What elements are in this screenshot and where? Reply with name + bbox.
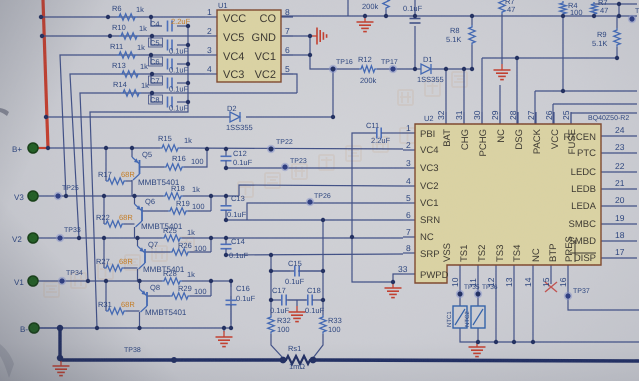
capacitor C14 0.1uF xyxy=(221,237,249,260)
wire U2 right pin stubs 24..17 xyxy=(601,135,637,137)
test point TP17 xyxy=(381,59,398,73)
wire NTC common bus xyxy=(460,328,639,342)
wire pin25 row xyxy=(571,112,637,114)
transistor Q6 MMBT5401 xyxy=(135,196,183,231)
wire R17 to collector xyxy=(126,180,132,182)
wire R27 feed xyxy=(103,238,105,268)
wire C15 row xyxy=(271,270,290,272)
resistor R18 1k xyxy=(163,184,200,199)
wire V2 row to pin7 xyxy=(33,237,162,239)
capacitor C17 0.1uF xyxy=(270,286,297,315)
wire row R16 to B+ row xyxy=(140,166,165,168)
wire R19 row end vertical xyxy=(210,196,212,211)
wire SRN row (pin6) xyxy=(226,219,403,221)
wire R29 row xyxy=(147,295,170,297)
wire D2 cathode to TP16 xyxy=(246,69,333,117)
wire ladder row 4 (VC3) + drop to V2 xyxy=(70,74,205,238)
test point TP26 xyxy=(306,193,331,206)
resistor R9 5.1K xyxy=(592,28,620,48)
resistor R29 100 xyxy=(170,284,207,299)
ground B- row xyxy=(216,331,233,347)
wire cap bus to B- drop xyxy=(90,26,188,328)
wire ladder row 3 (VC4) + drop to V3 xyxy=(60,55,205,196)
wire ladder row 1 (VCC) xyxy=(41,16,205,18)
wire U1 pin7 GND xyxy=(281,35,312,37)
wire R26 row xyxy=(145,251,170,253)
wire pin14 NC drop xyxy=(532,265,534,342)
resistor R33 100 xyxy=(320,315,342,334)
ground R7 branch xyxy=(494,64,511,80)
wire U1 pin8 CO to top rail xyxy=(281,15,637,17)
resistor R15 1k xyxy=(158,134,192,151)
resistor R16 100 xyxy=(164,154,204,170)
wire 200k resistor to rail xyxy=(385,10,387,16)
wire pin11 TS2 to NTC2 xyxy=(477,265,479,306)
resistor R31 68R xyxy=(98,300,135,314)
wire R29 row end vertical xyxy=(210,281,212,296)
resistor R25 1k xyxy=(162,226,195,241)
wire R31 to collector xyxy=(126,310,140,312)
wire R33 to rail xyxy=(313,334,323,358)
wire top rail stub up xyxy=(347,0,349,16)
wire pin29 drop xyxy=(499,85,501,124)
transistor Q5 MMBT5401 xyxy=(132,149,180,187)
wire jog to pin5 (VC1/TP26) xyxy=(247,203,403,220)
wire GND branch down to TP16 xyxy=(310,36,333,69)
capacitor C9 0.1uF xyxy=(403,4,423,23)
capacitor C7 0.1uF xyxy=(149,76,189,94)
wire 0.1uF cap drop xyxy=(414,0,416,18)
resistor R17 68R xyxy=(98,170,135,184)
test point TP33 xyxy=(56,227,81,242)
wire R9 top stub xyxy=(616,16,618,28)
wire pin33 PWPD to ground xyxy=(393,274,403,282)
wire SRP row (pin8) xyxy=(226,254,403,255)
wire C8 jog xyxy=(151,93,162,102)
IC U1 xyxy=(207,1,290,82)
resistor R26 100 xyxy=(170,241,207,255)
terminal V3 xyxy=(14,191,38,202)
wire R7b top net to edge xyxy=(594,3,637,5)
wire Q7 collector xyxy=(137,269,139,281)
resistor R32 100 xyxy=(268,315,291,334)
wire D1 cathode row xyxy=(430,68,472,70)
test point TP23 xyxy=(281,158,307,171)
wire C7 jog xyxy=(151,74,162,83)
wire C17/C18 mid ground stem xyxy=(296,300,298,306)
wire U2 top pin stubs xyxy=(445,112,447,124)
junction dot B- elbow xyxy=(57,325,63,331)
capacitor C6 0.1uF xyxy=(149,57,189,75)
wire pin27 row xyxy=(535,90,637,92)
terminal B+ xyxy=(12,143,38,154)
wire U1 pin stubs xyxy=(205,16,217,18)
transistor Q8 MMBT5401 xyxy=(140,281,187,317)
wire C5 jog xyxy=(151,36,162,45)
wire R22 feed xyxy=(103,196,105,224)
wire U2 left pin stubs xyxy=(403,132,415,134)
capacitor C4 2.2uF xyxy=(150,17,191,32)
resistor R4 100 xyxy=(560,1,583,17)
wire SRP vertical x=271 xyxy=(270,255,272,315)
wire B+ terminal red stub xyxy=(33,147,48,149)
wire SRN vertical x=323 xyxy=(322,220,324,315)
wire R9 bottom xyxy=(616,47,618,58)
wire C6 jog xyxy=(151,55,162,64)
wire pin32 BAT drop xyxy=(445,69,447,124)
wire NTC bus ground stem xyxy=(476,342,478,344)
capacitor C8 0.1uF xyxy=(149,95,189,113)
resistor R7 47 xyxy=(591,0,609,16)
resistor R27 68R xyxy=(96,257,133,271)
resistor R10 1k xyxy=(112,23,147,39)
resistor R14 1k xyxy=(113,80,149,96)
diode D1 1SS355 xyxy=(417,55,444,84)
test point TP38 xyxy=(124,347,177,363)
terminal V1 xyxy=(14,276,38,287)
wire R32 to rail xyxy=(271,334,283,358)
wire U1 pin5 loop xyxy=(281,74,297,93)
wire R8 to rail and down xyxy=(471,16,473,25)
wire Q8 collector xyxy=(139,312,141,328)
wire Q6 collector xyxy=(134,227,136,238)
wire R22 to collector xyxy=(124,223,135,225)
resistor R19 100 xyxy=(168,199,205,214)
wire R17 feed xyxy=(105,148,107,181)
ground B- rail left xyxy=(53,360,70,376)
wire pin26 row xyxy=(553,103,637,105)
capacitor C16 0.1uF xyxy=(226,281,256,324)
wire row VC3 (TP23/pin3) xyxy=(226,167,403,169)
no-connect X pin15 BTP xyxy=(545,282,557,292)
capacitor C18 0.1uF xyxy=(297,286,325,315)
wire pin15 BTP stub xyxy=(550,265,552,284)
wire R26 row end vertical xyxy=(210,238,212,252)
resistor R11 1k xyxy=(110,42,145,58)
test point TP36 xyxy=(474,284,498,298)
wire D2 row from B+ line xyxy=(46,116,230,118)
wire C17/C18 row xyxy=(271,299,274,301)
ground NTC bus xyxy=(469,341,486,357)
wire R19 row xyxy=(142,210,168,212)
wire V3 jog to pin4 xyxy=(239,185,403,196)
capacitor C5 0.1uF xyxy=(149,38,189,56)
capacitor C11 2.2uF xyxy=(366,121,391,145)
ground C17/C18 mid xyxy=(289,306,306,322)
capacitor C12 0.1uF xyxy=(221,149,253,168)
wire pin13 TS4 drop xyxy=(513,265,515,342)
wire C16 drop xyxy=(230,281,232,287)
resistor R22 68R xyxy=(96,213,133,227)
wire V3 row xyxy=(33,195,163,197)
wire U1 pin6 VC1 xyxy=(281,54,310,56)
IC U2 BQ40Z50-R2 xyxy=(398,110,629,287)
wire R27 to collector xyxy=(124,267,138,269)
wire R31 feed xyxy=(105,281,107,311)
test point TP15 xyxy=(628,8,639,23)
wire pin30/pin28 row xyxy=(482,57,617,59)
resistor 200k xyxy=(362,0,389,11)
photo edge smudges xyxy=(0,108,14,378)
wire R4 drop xyxy=(562,16,564,91)
ground top rail xyxy=(357,16,374,32)
wire B- thick rail xyxy=(58,328,61,359)
wire TP16 to R12 xyxy=(333,68,359,70)
wire B- ground stem xyxy=(223,328,225,332)
thermistor NTC1 xyxy=(446,306,467,328)
resistor R28 1k xyxy=(162,269,195,284)
wire B- row xyxy=(34,327,231,329)
resistor R12 200k xyxy=(358,55,377,85)
wire ladder row 5 (VC2) + drop to V1 xyxy=(80,93,297,281)
test point TP34 xyxy=(58,270,83,285)
ground PWPD xyxy=(385,282,402,298)
test point TP16 xyxy=(329,59,353,73)
transistor Q7 MMBT5401 xyxy=(138,238,185,274)
capacitor C13 0.1uF xyxy=(221,194,247,220)
resistor R6 1k xyxy=(112,4,144,20)
resistor R8 5.1K xyxy=(446,25,475,45)
test point TP37 xyxy=(564,288,590,300)
terminal V2 xyxy=(12,233,38,244)
shunt resistor Rs1 1mOhm xyxy=(284,344,312,371)
wire B+ red feed line xyxy=(43,0,48,148)
resistor R13 1k xyxy=(112,61,148,77)
test point TP22 xyxy=(267,139,293,153)
ground U1 GND pin (rotated) xyxy=(312,28,327,45)
diode D2 1SS355 xyxy=(226,104,253,132)
junction dots on B- rail xyxy=(280,357,287,364)
wire Q5 collector xyxy=(131,180,133,196)
wire R7 to ground xyxy=(501,14,503,64)
resistor R7 47 xyxy=(499,0,516,14)
wire C4 jog xyxy=(151,17,162,26)
wire R12 to TP17 to D1 xyxy=(377,68,421,70)
thermistor NTC2 xyxy=(464,306,485,328)
wire ladder row 2 (VC5) xyxy=(42,35,205,37)
watermark (photo artifact) xyxy=(44,72,467,297)
wire pin16 PRES to TP37 xyxy=(568,265,639,310)
wire pin12 TS3 drop xyxy=(495,265,497,342)
wire B+ row to U2 pin2 (VC4) xyxy=(48,147,160,149)
wire pin10 TS1 to NTC1 xyxy=(459,265,461,306)
test point TP35 xyxy=(456,284,480,298)
wire pin31 drop xyxy=(463,69,465,124)
capacitor C15 0.1uF xyxy=(271,259,323,286)
test point TP25 xyxy=(54,185,79,200)
wire V1 row xyxy=(33,280,162,282)
noise overlay xyxy=(0,0,1,1)
wire C11 branch xyxy=(388,132,403,134)
terminal B- xyxy=(20,323,39,334)
wire R7b drop to rail xyxy=(618,4,620,16)
